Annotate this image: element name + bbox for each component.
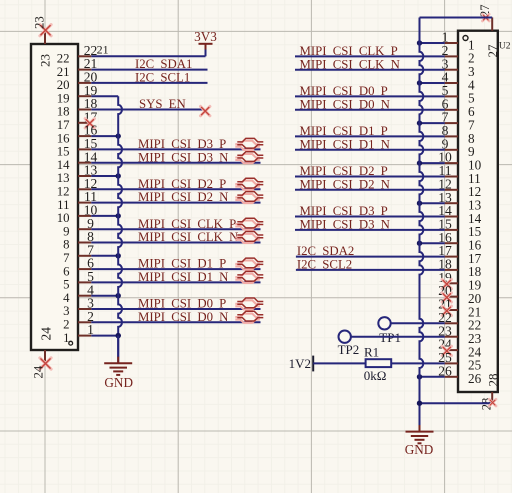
svg-text:MIPI CSI D1 N: MIPI CSI D1 N	[300, 137, 390, 151]
U2 pin 19	[438, 270, 481, 293]
svg-text:MIPI CSI D3 P: MIPI CSI D3 P	[300, 204, 388, 218]
wire net MIPI CSI D0 N	[91, 321, 260, 323]
U2 pin 13	[438, 190, 481, 213]
svg-text:9: 9	[63, 224, 69, 238]
U2 pin 23	[438, 323, 481, 346]
J1 pin 18	[57, 96, 98, 119]
wire U2 pin 13 to GND bus	[420, 202, 445, 204]
svg-text:U2: U2	[499, 42, 511, 52]
J1 pin 12	[57, 176, 98, 199]
svg-text:14: 14	[57, 158, 70, 172]
wire U2 pin 26 to GND bus	[420, 376, 445, 378]
differential pair directive MIPI CSI D3 N	[235, 152, 263, 164]
U2 pin 6	[442, 96, 475, 119]
svg-text:21: 21	[97, 42, 109, 56]
svg-text:7: 7	[63, 251, 70, 265]
svg-text:11: 11	[57, 198, 69, 212]
wire net MIPI CSI CLK P	[91, 228, 260, 230]
no-ERC marker SYS EN	[201, 106, 210, 115]
no-ERC marker pin 17	[85, 119, 94, 128]
svg-text:MIPI CSI D1 P: MIPI CSI D1 P	[300, 124, 388, 138]
U2 pin 12	[438, 176, 481, 199]
J1 pin 15	[57, 136, 98, 159]
svg-text:I2C SDA2: I2C SDA2	[297, 244, 354, 258]
svg-text:6: 6	[63, 264, 70, 278]
svg-text:27: 27	[485, 44, 500, 58]
wire net MIPI CSI D2 N (right)	[295, 189, 445, 191]
J1 pin1 indicator	[69, 341, 73, 345]
U2 pin 7	[442, 110, 475, 133]
wire J1 pin 4 to GND bus	[91, 295, 118, 297]
wire net MIPI CSI D1 P (right)	[295, 135, 445, 137]
wire J1 pin 19 to GND bus	[91, 95, 118, 97]
no-ERC marker pin 28	[489, 399, 496, 406]
J1 pin 2	[63, 309, 94, 332]
differential pair directive MIPI CSI D2 N	[235, 192, 263, 203]
wire net MIPI CSI D0 P (right)	[295, 95, 445, 97]
junction	[417, 201, 422, 206]
J1 pin 7	[63, 242, 94, 265]
U2 pin 18	[438, 257, 481, 280]
svg-text:MIPI CSI D2 N: MIPI CSI D2 N	[138, 190, 228, 204]
svg-text:21: 21	[57, 65, 70, 79]
svg-text:GND: GND	[405, 442, 434, 457]
junction	[116, 133, 121, 138]
svg-text:MIPI CSI D3 P: MIPI CSI D3 P	[138, 137, 226, 151]
svg-text:MIPI CSI D0 N: MIPI CSI D0 N	[138, 310, 228, 324]
svg-text:I2C SDA1: I2C SDA1	[135, 57, 192, 71]
U2 pin 9	[442, 136, 475, 159]
svg-text:12: 12	[57, 185, 70, 199]
svg-text:8: 8	[63, 238, 69, 252]
wire U2 pin 4 to GND bus	[420, 82, 445, 84]
J1 pin 1	[63, 322, 94, 345]
svg-text:MIPI CSI CLK P: MIPI CSI CLK P	[300, 44, 398, 58]
junction	[116, 333, 121, 338]
U2 pin 28 (bottom)	[480, 374, 501, 411]
svg-text:MIPI CSI D2 P: MIPI CSI D2 P	[300, 164, 388, 178]
svg-text:MIPI CSI CLK N: MIPI CSI CLK N	[300, 57, 400, 71]
wire net MIPI CSI D1 N	[91, 281, 260, 283]
wire U2 pin 16 to GND bus	[420, 242, 445, 244]
resistor R1	[364, 344, 391, 383]
U2 pin 14	[438, 203, 481, 226]
svg-text:I2C SCL1: I2C SCL1	[135, 71, 190, 85]
J1 pin 19	[57, 83, 98, 106]
wire net MIPI CSI D3 P	[91, 148, 260, 150]
svg-text:GND: GND	[104, 375, 133, 390]
wire J1 pin 16 to GND bus	[91, 135, 118, 137]
U2 pin 8	[442, 123, 475, 146]
svg-text:1V2: 1V2	[289, 356, 311, 371]
svg-text:MIPI CSI D2 P: MIPI CSI D2 P	[138, 177, 226, 191]
differential pair directive MIPI CSI D0 N	[235, 311, 263, 323]
U2 pin 21	[438, 297, 481, 320]
wire J1 pin 1 to GND bus	[91, 335, 118, 337]
svg-text:3: 3	[63, 304, 69, 318]
svg-text:MIPI CSI D0 P: MIPI CSI D0 P	[138, 297, 226, 311]
U2 pin 1	[442, 30, 475, 53]
ground GND (left)	[104, 336, 133, 391]
no-ERC marker pin 19	[442, 279, 451, 288]
U2 pin 20	[438, 283, 481, 306]
J1 pin 11	[57, 189, 97, 212]
wire U2 pin 7 to GND bus	[420, 122, 445, 124]
wire net MIPI CSI D2 P (right)	[295, 176, 445, 178]
wire J1 pin 13 to GND bus	[91, 175, 118, 177]
connector J1 body	[31, 44, 78, 350]
svg-text:10: 10	[57, 211, 70, 225]
power port 1V2	[289, 356, 314, 372]
svg-text:MIPI CSI D1 P: MIPI CSI D1 P	[138, 257, 226, 271]
junction	[116, 293, 121, 298]
junction	[417, 241, 422, 246]
J1 pin 13	[57, 163, 98, 186]
differential pair directive MIPI CSI D1 N	[235, 271, 263, 283]
wire net MIPI CSI D0 P	[91, 308, 260, 310]
no-ERC marker pin 20	[442, 293, 451, 302]
svg-text:MIPI CSI D1 N: MIPI CSI D1 N	[138, 270, 228, 284]
svg-text:23: 23	[32, 16, 46, 29]
svg-text:MIPI CSI CLK P: MIPI CSI CLK P	[138, 217, 236, 231]
no-ERC marker pin 24	[442, 346, 451, 355]
wire net MIPI CSI D1 N (right)	[295, 149, 445, 151]
J1 pin 24 (bottom, no ERC)	[32, 327, 54, 379]
test point TP1	[378, 317, 401, 345]
svg-text:24: 24	[38, 327, 53, 341]
svg-text:18: 18	[57, 105, 70, 119]
wire J1 pin 22 to 3V3	[91, 55, 205, 57]
svg-text:MIPI CSI D3 N: MIPI CSI D3 N	[300, 218, 390, 232]
wire net MIPI CSI D2 N	[91, 202, 260, 204]
U2 pin 4	[442, 70, 475, 93]
svg-text:23: 23	[38, 54, 53, 67]
U2 pin 25	[438, 350, 481, 373]
wire net MIPI CSI D3 N	[91, 162, 260, 164]
wire net MIPI CSI CLK N (right)	[295, 69, 445, 71]
svg-text:13: 13	[57, 171, 70, 185]
junction	[116, 253, 121, 258]
svg-text:5: 5	[63, 278, 69, 292]
J1 pin 4	[63, 282, 94, 305]
svg-text:MIPI CSI CLK N: MIPI CSI CLK N	[138, 230, 238, 244]
svg-text:3V3: 3V3	[194, 29, 217, 44]
svg-text:R1: R1	[364, 344, 379, 359]
U2 pin 17	[438, 243, 481, 266]
differential pair directive MIPI CSI D2 P	[235, 178, 263, 190]
J1 pin 10	[57, 203, 98, 226]
wire net MIPI CSI D2 P	[91, 188, 260, 190]
svg-text:1: 1	[63, 331, 69, 345]
J1 pin 22	[57, 43, 98, 66]
wire net MIPI CSI D1 P	[91, 268, 260, 270]
wire U2 pin 28 to GND bus	[420, 402, 493, 404]
svg-text:26: 26	[468, 371, 482, 386]
svg-text:19: 19	[57, 91, 70, 105]
differential pair directive MIPI CSI D0 P	[235, 298, 263, 310]
wire U2 pin 1 to GND bus	[420, 42, 445, 44]
junction	[116, 333, 121, 338]
U2 pin 24	[438, 337, 481, 360]
svg-text:28: 28	[486, 374, 501, 387]
svg-text:24: 24	[32, 365, 46, 378]
svg-text:TP2: TP2	[338, 342, 360, 357]
svg-text:SYS EN: SYS EN	[139, 97, 186, 111]
U2 pin 3	[442, 56, 475, 79]
U2 pin 5	[442, 83, 475, 106]
wire net MIPI CSI CLK N	[91, 242, 260, 244]
U2 pin1 indicator	[463, 36, 468, 41]
wire J1 pin 7 to GND bus	[91, 255, 118, 257]
svg-text:MIPI CSI D2 N: MIPI CSI D2 N	[300, 177, 390, 191]
junction	[417, 80, 422, 85]
J1 pin 9	[63, 216, 94, 239]
wire net MIPI CSI CLK P (right)	[295, 55, 445, 57]
wire TP2 to U2 pin 23	[351, 336, 445, 338]
wire net MIPI CSI D0 N (right)	[295, 109, 445, 111]
GND bus (right) with wire hops	[420, 18, 424, 432]
no-ERC marker pin 21	[442, 306, 451, 315]
wire net MIPI CSI D3 P (right)	[295, 216, 445, 218]
J1 pin 17	[57, 109, 98, 132]
GND bus (left) with wire hops	[118, 96, 122, 363]
wire R1 to U2 pin 25	[391, 362, 445, 364]
junction	[116, 173, 121, 178]
U2 pin 16	[438, 230, 481, 253]
svg-text:16: 16	[57, 131, 70, 145]
junction	[417, 120, 422, 125]
J1 pin 14	[57, 149, 98, 172]
J1 pin 8	[63, 229, 94, 252]
power port 3V3	[194, 29, 217, 50]
wire net I2C SCL1	[91, 82, 207, 84]
J1 pin 3	[63, 296, 94, 319]
differential pair directive MIPI CSI D3 P	[235, 138, 263, 150]
svg-text:MIPI CSI D0 N: MIPI CSI D0 N	[300, 97, 390, 111]
wire TP1 to U2 pin 22	[391, 322, 445, 324]
U2 pin 2	[442, 43, 475, 66]
U2 pin 26	[438, 363, 481, 386]
junction	[417, 40, 422, 45]
svg-text:15: 15	[57, 145, 70, 159]
wire net I2C SCL2	[296, 269, 445, 271]
no-ERC marker pin 27	[482, 14, 489, 21]
ground GND (right)	[405, 425, 434, 457]
U2 pin 27 (top)	[478, 5, 500, 58]
test point TP2	[338, 331, 360, 358]
J1 pin 21	[57, 56, 98, 79]
svg-text:MIPI CSI D3 N: MIPI CSI D3 N	[138, 150, 228, 164]
wire J1 pin 10 to GND bus	[91, 215, 118, 217]
svg-text:22: 22	[57, 52, 70, 66]
svg-text:4: 4	[63, 291, 70, 305]
svg-text:20: 20	[57, 78, 70, 92]
wire U2 pin 10 to GND bus	[420, 162, 445, 164]
junction	[116, 213, 121, 218]
junction	[417, 374, 422, 379]
J1 pin 16	[57, 123, 98, 146]
differential pair directive MIPI CSI CLK P	[235, 218, 263, 230]
svg-text:I2C SCL2: I2C SCL2	[297, 258, 352, 272]
J1 pin 23 (top, no ERC)	[32, 16, 52, 67]
wire net I2C SDA1	[91, 69, 207, 71]
U2 pin 11	[438, 163, 480, 186]
differential pair directive MIPI CSI D1 P	[235, 258, 263, 270]
U2 pin 10	[438, 150, 481, 173]
svg-text:2: 2	[63, 318, 69, 332]
U2 pin 15	[438, 217, 481, 240]
svg-text:0kΩ: 0kΩ	[364, 368, 387, 383]
junction	[417, 160, 422, 165]
differential pair directive MIPI CSI CLK N	[235, 232, 263, 244]
wire net I2C SDA2	[296, 256, 445, 258]
wire 1V2 to R1	[313, 362, 365, 364]
wire net MIPI CSI D3 N (right)	[295, 229, 445, 231]
J1 pin 5	[63, 269, 94, 292]
svg-text:17: 17	[57, 118, 70, 132]
wire net SYS EN	[91, 109, 204, 111]
U2 pin 22	[438, 310, 481, 333]
J1 pin 20	[57, 70, 98, 93]
connector U2 body	[458, 31, 498, 392]
J1 pin 6	[63, 256, 94, 279]
svg-text:MIPI CSI D0 P: MIPI CSI D0 P	[300, 84, 388, 98]
wire U2 pin 27 to GND bus	[420, 17, 493, 19]
junction (pin 28 tie)	[417, 401, 422, 406]
